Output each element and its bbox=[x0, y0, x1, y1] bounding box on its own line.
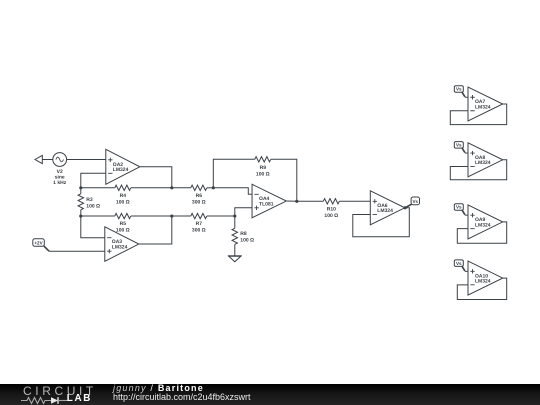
svg-text:R4: R4 bbox=[120, 193, 127, 199]
wire bbox=[465, 270, 468, 272]
svg-text:TL081: TL081 bbox=[259, 201, 274, 207]
net label Vs bbox=[406, 197, 420, 208]
junction bbox=[212, 186, 215, 189]
svg-text:R8: R8 bbox=[240, 231, 247, 237]
op-amp OA6 bbox=[370, 191, 405, 225]
wire bbox=[42, 159, 53, 161]
CircuitLab logo LAB bbox=[67, 394, 92, 404]
svg-text:R3: R3 bbox=[86, 197, 93, 203]
input terminal bbox=[35, 155, 42, 163]
svg-text:LM324: LM324 bbox=[475, 222, 491, 228]
net label Vs (buffer OA9) bbox=[454, 204, 465, 215]
ground bbox=[228, 256, 242, 262]
resistor R4 bbox=[115, 185, 131, 205]
svg-text:R5: R5 bbox=[120, 221, 127, 227]
svg-text:R10: R10 bbox=[327, 206, 336, 212]
svg-text:LM324: LM324 bbox=[377, 208, 393, 214]
wire bbox=[339, 200, 370, 202]
resistor R10 bbox=[323, 199, 339, 219]
op-amp OA7 bbox=[468, 87, 503, 121]
resistor R3 bbox=[78, 188, 100, 216]
wire (OA9 feedback) bbox=[457, 222, 506, 243]
voltage source V2 bbox=[53, 153, 67, 186]
wire (OA4 non-inverting input) bbox=[235, 208, 252, 216]
wire bbox=[465, 152, 468, 154]
wire bbox=[139, 216, 172, 244]
svg-text:300 Ω: 300 Ω bbox=[192, 199, 206, 205]
svg-text:Vs: Vs bbox=[456, 261, 462, 266]
wire bbox=[131, 187, 172, 189]
junction bbox=[79, 214, 82, 217]
wire bbox=[81, 216, 105, 238]
wire bbox=[465, 96, 468, 98]
resistor R8 bbox=[232, 216, 254, 256]
plot url bbox=[113, 393, 251, 402]
svg-text:R6: R6 bbox=[196, 193, 203, 199]
junction bbox=[403, 206, 406, 209]
junction bbox=[79, 186, 82, 189]
junction bbox=[233, 214, 236, 217]
footer bar bbox=[0, 384, 540, 405]
svg-text:LM324: LM324 bbox=[113, 167, 129, 173]
net label +2V bbox=[33, 239, 49, 251]
svg-text:LM324: LM324 bbox=[112, 244, 128, 250]
svg-text:1 kHz: 1 kHz bbox=[53, 180, 67, 186]
wire bbox=[81, 215, 115, 217]
wire bbox=[81, 173, 106, 188]
resistor R7 bbox=[191, 213, 207, 233]
wire bbox=[81, 187, 115, 189]
svg-text:LM324: LM324 bbox=[475, 279, 491, 285]
wire (OA8 feedback) bbox=[450, 160, 506, 180]
wire bbox=[213, 159, 255, 188]
plot title bbox=[113, 384, 204, 393]
svg-text:Vs: Vs bbox=[456, 205, 462, 210]
junction bbox=[170, 186, 173, 189]
CircuitLab logo wire-diode glyph bbox=[21, 396, 69, 405]
op-amp OA3 bbox=[105, 227, 139, 261]
svg-text:100 Ω: 100 Ω bbox=[116, 199, 130, 205]
wire bbox=[286, 200, 297, 202]
wire bbox=[271, 159, 297, 201]
op-amp OA8 bbox=[468, 143, 503, 177]
wire bbox=[67, 159, 106, 161]
net label Vs (buffer OA7) bbox=[454, 86, 465, 97]
wire bbox=[465, 214, 468, 216]
op-amp OA9 bbox=[468, 205, 503, 239]
svg-text:+2V: +2V bbox=[34, 241, 43, 246]
svg-text:Vs: Vs bbox=[412, 199, 418, 204]
wire bbox=[207, 215, 235, 217]
svg-text:100 Ω: 100 Ω bbox=[86, 203, 100, 209]
wire bbox=[140, 167, 172, 188]
wire (to OA4 inverting input) bbox=[213, 188, 252, 195]
svg-text:LM324: LM324 bbox=[475, 160, 491, 166]
CircuitLab logo wordmark bbox=[23, 385, 97, 397]
wire bbox=[172, 187, 191, 189]
svg-text:100 Ω: 100 Ω bbox=[240, 237, 254, 243]
svg-text:LM324: LM324 bbox=[475, 104, 491, 110]
svg-text:R9: R9 bbox=[260, 165, 267, 171]
junction bbox=[295, 200, 298, 203]
wire bbox=[131, 215, 172, 217]
net label Vs (buffer OA8) bbox=[454, 142, 465, 153]
net label Vs (buffer OA10) bbox=[454, 260, 465, 271]
wire bbox=[297, 200, 324, 202]
wire bbox=[49, 250, 105, 252]
wire (OA6 feedback) bbox=[353, 208, 410, 237]
svg-text:300 Ω: 300 Ω bbox=[192, 228, 206, 234]
wire (OA10 feedback) bbox=[457, 278, 506, 299]
resistor R9 bbox=[255, 157, 271, 178]
resistor R6 bbox=[191, 185, 207, 205]
svg-text:R7: R7 bbox=[196, 221, 203, 227]
wire bbox=[207, 187, 214, 189]
op-amp OA4 bbox=[252, 184, 286, 218]
svg-text:100 Ω: 100 Ω bbox=[324, 213, 338, 219]
wire bbox=[172, 215, 191, 217]
svg-text:Vs: Vs bbox=[456, 143, 462, 148]
svg-text:100 Ω: 100 Ω bbox=[116, 228, 130, 234]
wire (OA7 feedback) bbox=[450, 104, 506, 125]
svg-text:Vs: Vs bbox=[456, 87, 462, 92]
op-amp OA10 bbox=[468, 261, 503, 295]
op-amp OA2 bbox=[106, 149, 140, 184]
junction bbox=[170, 214, 173, 217]
resistor R5 bbox=[115, 213, 131, 233]
svg-text:100 Ω: 100 Ω bbox=[256, 171, 270, 177]
